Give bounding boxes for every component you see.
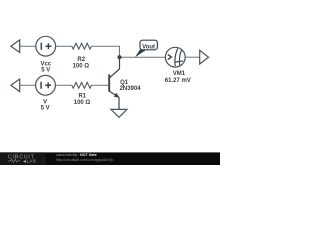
- svg-text:R1: R1: [78, 94, 86, 100]
- svg-text:61.27 mV: 61.27 mV: [165, 78, 191, 84]
- svg-text:5 V: 5 V: [41, 106, 50, 112]
- svg-text:Vout: Vout: [142, 44, 155, 50]
- svg-text:100 Ω: 100 Ω: [74, 100, 91, 106]
- svg-text:100 Ω: 100 Ω: [73, 63, 90, 69]
- svg-text:Q1: Q1: [120, 80, 129, 86]
- svg-text:5 V: 5 V: [41, 68, 50, 74]
- svg-text:◀LAB: ◀LAB: [23, 159, 36, 164]
- svg-text:camcontently / NOT Gate: camcontently / NOT Gate: [56, 153, 97, 157]
- svg-text:http://circuitlab.com/c/mdgvyd: http://circuitlab.com/c/mdgvydd6r7jk: [56, 158, 113, 162]
- svg-text:2N3904: 2N3904: [120, 86, 142, 92]
- svg-text:VM1: VM1: [173, 71, 186, 77]
- svg-text:R2: R2: [77, 57, 85, 63]
- svg-text:V: V: [43, 99, 47, 105]
